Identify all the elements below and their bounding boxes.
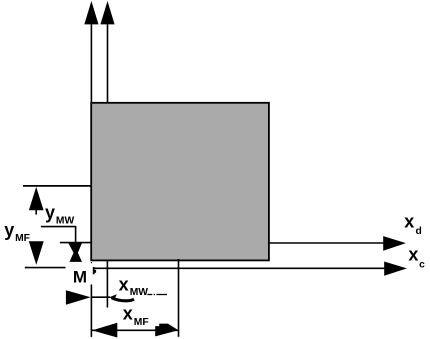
x_MF right arrow [155, 324, 178, 337]
x_c axis left reference segment [25, 267, 66, 269]
label x_MF [123, 304, 149, 328]
y_MW reference line [41, 226, 76, 228]
force arrow W (up, left) [84, 1, 98, 103]
x_MW dimension line [91, 296, 110, 298]
svg-text:x: x [119, 274, 129, 294]
y_MW drop line [75, 227, 77, 243]
svg-text:MW: MW [56, 215, 75, 226]
svg-text:c: c [419, 259, 425, 270]
svg-text:MF: MF [134, 317, 149, 328]
x_MW right-pointing arrow [66, 290, 91, 305]
svg-text:x: x [408, 245, 418, 265]
svg-text:x: x [123, 304, 133, 324]
label x_MW [119, 274, 149, 298]
x_MW left-pointing arrow with swoosh tail [109, 294, 134, 301]
M tick at x_c origin [93, 267, 96, 274]
x_MF right extension line [178, 259, 180, 337]
x_MW left extension line [90, 285, 92, 337]
foundation block [91, 103, 269, 261]
x_MF left arrow [92, 323, 117, 338]
y_MF up arrow [29, 187, 44, 215]
svg-text:d: d [416, 226, 422, 237]
dash-dot centerline [147, 294, 167, 296]
label y_MF [4, 220, 30, 244]
svg-text:y: y [4, 220, 14, 240]
label y_MW [45, 202, 74, 226]
svg-text:MW: MW [130, 287, 149, 298]
y_MF top reference line [23, 185, 91, 187]
x_d axis [269, 236, 406, 251]
label x_c [408, 245, 425, 271]
corner dot below block [91, 262, 92, 263]
x_c axis [94, 262, 407, 276]
svg-text:MF: MF [15, 233, 30, 244]
label x_d [404, 211, 421, 237]
M point bowtie arrows [68, 242, 83, 262]
svg-text:M: M [73, 267, 87, 286]
x_MW right extension line [106, 261, 108, 308]
svg-text:x: x [404, 211, 414, 231]
x_MF dimension line [92, 329, 178, 331]
force arrow F (up, right) [100, 1, 114, 103]
x_d axis left segment [60, 242, 91, 244]
svg-text:y: y [45, 202, 55, 222]
y_MF down arrow [29, 241, 44, 265]
